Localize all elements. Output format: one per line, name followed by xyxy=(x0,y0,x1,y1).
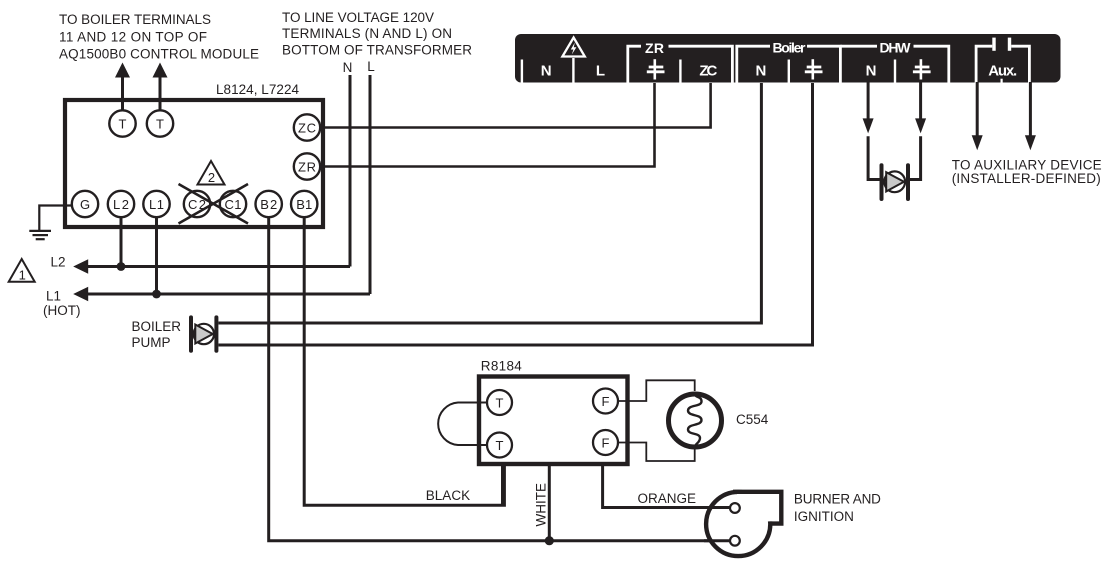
wire: ZR to strip ZR contact xyxy=(320,83,654,167)
svg-text:(INSTALLER-DEFINED): (INSTALLER-DEFINED) xyxy=(952,171,1101,186)
svg-text:T: T xyxy=(496,395,504,410)
Boiler bracket xyxy=(737,40,841,83)
svg-text:11 AND 12 ON TOP OF: 11 AND 12 ON TOP OF xyxy=(59,30,207,45)
wire: boiler pump top to Boiler N xyxy=(219,83,762,323)
note: TO LINE VOLTAGE text xyxy=(282,10,472,58)
svg-text:T: T xyxy=(119,116,127,131)
wire: DHW ground to dhw pump right xyxy=(908,136,921,179)
terminal T (12) xyxy=(147,110,173,136)
svg-text:L1: L1 xyxy=(149,197,164,212)
junction: white wire to neutral run xyxy=(545,536,554,545)
svg-text:TERMINALS (N AND L) ON: TERMINALS (N AND L) ON xyxy=(282,26,452,41)
svg-text:T: T xyxy=(496,438,504,453)
relay box outline xyxy=(65,100,323,227)
wire: ZC to strip ZC xyxy=(320,83,710,128)
terminal B2 xyxy=(256,191,282,217)
wire: R8184 bottom left down (black) xyxy=(501,464,504,505)
wire: L riser xyxy=(369,75,372,294)
note: TO AUXILIARY DEVICE xyxy=(952,157,1102,186)
wire: L1 terminal down to L1 line xyxy=(155,217,158,294)
terminal B1 xyxy=(291,191,317,217)
wire: DHW N down with arrow xyxy=(863,82,874,133)
svg-text:PUMP: PUMP xyxy=(132,335,171,350)
wire: Aux right down arrow xyxy=(1025,82,1036,150)
wire: T2 up arrow to boiler terminal 12 xyxy=(153,63,168,111)
svg-text:B2: B2 xyxy=(260,197,277,212)
svg-text:TO BOILER TERMINALS: TO BOILER TERMINALS xyxy=(59,12,211,27)
DHW bracket xyxy=(840,40,948,83)
svg-text:L2: L2 xyxy=(113,197,129,212)
svg-text:BURNER AND: BURNER AND xyxy=(794,492,881,507)
wire: G to earth xyxy=(39,206,72,231)
burner and ignition symbol xyxy=(704,492,781,556)
ZR contact symbol xyxy=(647,59,665,79)
strip divider xyxy=(679,60,681,83)
strip divider xyxy=(788,60,790,83)
terminal strip body xyxy=(515,34,1061,83)
junction: L1 xyxy=(152,290,161,299)
terminal T lower xyxy=(487,433,512,458)
ZR bracket xyxy=(628,40,733,83)
wire: N riser xyxy=(349,75,352,267)
svg-text:DHW: DHW xyxy=(880,40,912,56)
svg-text:R8184: R8184 xyxy=(481,359,522,374)
svg-text:F: F xyxy=(602,435,610,450)
wire: Aux left down arrow xyxy=(972,82,983,150)
note: TO BOILER TERMINALS text xyxy=(59,12,259,62)
wire: T1 up arrow to boiler terminal 11 xyxy=(115,63,130,111)
terminal ZR xyxy=(294,153,320,179)
wire: T-T jumper arc xyxy=(438,403,487,446)
wire: F lower to cad cell xyxy=(618,443,695,462)
svg-text:2: 2 xyxy=(208,170,215,185)
svg-text:ORANGE: ORANGE xyxy=(638,491,697,506)
ground (earth) symbol xyxy=(29,231,51,239)
wire: B2 down xyxy=(269,217,731,541)
svg-text:L: L xyxy=(596,63,605,80)
svg-text:N: N xyxy=(343,60,353,75)
svg-text:(HOT): (HOT) xyxy=(43,303,81,318)
terminal L1 xyxy=(143,191,169,217)
svg-text:1: 1 xyxy=(19,268,26,283)
note triangle 1 xyxy=(9,259,35,283)
wire: DHW ground down with arrow xyxy=(915,82,926,133)
svg-text:IGNITION: IGNITION xyxy=(794,509,854,524)
svg-text:ZC: ZC xyxy=(298,120,316,135)
strip divider xyxy=(894,60,896,83)
note triangle 2 xyxy=(198,161,225,185)
R8184 box outline xyxy=(479,377,628,465)
hazard triangle xyxy=(562,38,584,57)
svg-text:G: G xyxy=(80,197,90,212)
Aux bracket with contact gap xyxy=(976,38,1029,83)
svg-text:N: N xyxy=(866,63,877,80)
terminal F lower xyxy=(593,430,618,455)
wire: F upper to cad cell xyxy=(618,380,695,401)
terminal C1 (crossed out) xyxy=(220,191,246,217)
cad cell C554 xyxy=(669,393,722,449)
svg-text:L1: L1 xyxy=(46,289,61,304)
terminal ZC xyxy=(294,114,320,140)
wire: L2 terminal down to L2 line xyxy=(120,217,123,267)
terminal G xyxy=(72,191,98,217)
DHW contact symbol xyxy=(913,59,931,79)
strip divider under triangle xyxy=(572,58,574,83)
svg-text:Aux.: Aux. xyxy=(988,63,1017,80)
svg-text:AQ1500B0 CONTROL MODULE: AQ1500B0 CONTROL MODULE xyxy=(59,47,259,62)
boiler pump symbol xyxy=(191,317,216,350)
svg-text:T: T xyxy=(156,116,164,131)
terminal L2 xyxy=(108,191,134,217)
note: BURNER AND IGNITION xyxy=(794,492,881,525)
svg-text:L: L xyxy=(367,59,375,74)
svg-text:N: N xyxy=(541,63,552,80)
wire: WHITE wire down from R8184 xyxy=(548,464,551,541)
strip tick below Aux xyxy=(1000,79,1002,83)
svg-text:BOILER: BOILER xyxy=(132,319,182,334)
svg-text:ZR: ZR xyxy=(645,40,664,56)
wire: L2 line with left arrow, to N riser xyxy=(73,259,350,273)
svg-text:L2: L2 xyxy=(51,255,66,270)
boiler pump label xyxy=(132,319,182,350)
X cross over C2 C1 xyxy=(179,184,249,224)
svg-text:L8124, L7224: L8124, L7224 xyxy=(216,82,299,97)
terminal C2 (crossed out) xyxy=(184,191,210,217)
svg-text:ZC: ZC xyxy=(699,63,717,80)
wire: boiler pump bottom to Boiler ground xyxy=(219,83,813,345)
svg-text:F: F xyxy=(602,394,610,409)
strip tick left xyxy=(521,60,523,83)
svg-text:TO LINE VOLTAGE 120V: TO LINE VOLTAGE 120V xyxy=(282,10,434,25)
svg-text:B1: B1 xyxy=(296,197,312,212)
svg-text:BLACK: BLACK xyxy=(426,488,470,503)
svg-text:C1: C1 xyxy=(225,197,242,212)
svg-text:BOTTOM OF TRANSFORMER: BOTTOM OF TRANSFORMER xyxy=(282,43,472,58)
junction: L2 xyxy=(117,262,126,271)
wire: DHW N to dhw pump left xyxy=(868,136,881,179)
wire: B1 down to BLACK xyxy=(304,217,504,505)
DHW zone pump symbol xyxy=(882,165,909,199)
svg-text:C554: C554 xyxy=(736,412,769,427)
svg-text:ZR: ZR xyxy=(298,159,316,174)
wire: L1 line with left arrow, to L riser xyxy=(73,287,370,301)
svg-text:WHITE: WHITE xyxy=(534,483,549,527)
svg-text:TO AUXILIARY DEVICE: TO AUXILIARY DEVICE xyxy=(952,157,1102,172)
Boiler contact symbol xyxy=(805,59,823,79)
terminal T (11) xyxy=(109,110,135,136)
terminal T upper xyxy=(487,390,512,415)
wire: ORANGE from R8184 to burner xyxy=(603,464,731,508)
terminal F upper xyxy=(593,389,618,414)
svg-text:N: N xyxy=(755,63,766,80)
svg-text:Boiler: Boiler xyxy=(773,40,807,56)
